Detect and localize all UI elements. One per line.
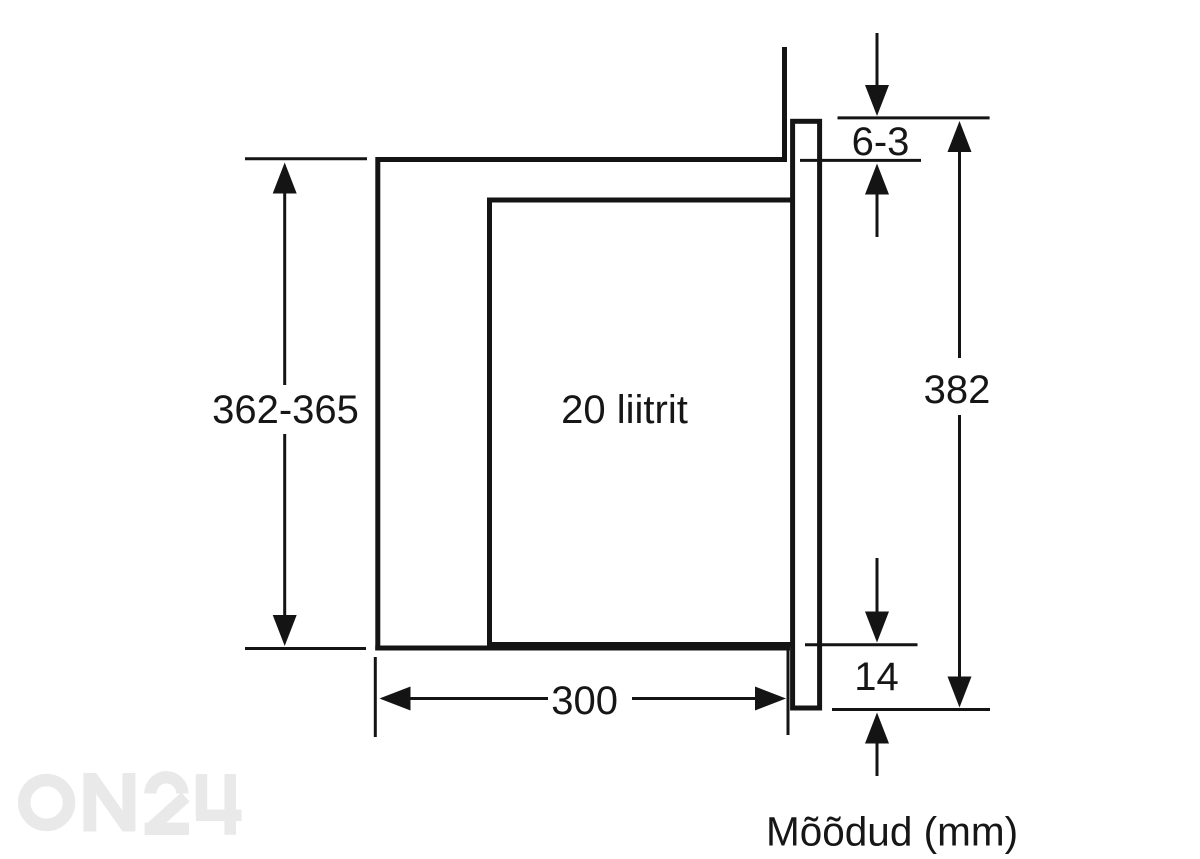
- dimension 6-3 lower shaft: [876, 194, 879, 237]
- cabinet top edge: [376, 157, 788, 162]
- dimension 300 left shaft: [410, 697, 548, 700]
- svg-text:6-3: 6-3: [852, 120, 910, 164]
- dimension 14 upper shaft: [876, 558, 879, 613]
- dimension 362-365 up arrowhead: [273, 163, 297, 194]
- dimension 300 left extension line: [374, 657, 377, 737]
- svg-text:382: 382: [924, 368, 991, 412]
- dimension 382 upper shaft: [958, 151, 961, 358]
- dimension 300 right extension line: [787, 647, 790, 735]
- dimension 382 / 14 bottom extension line: [832, 708, 990, 711]
- dimension 14 down arrowhead: [865, 612, 889, 643]
- dimension 362-365 upper shaft: [283, 192, 286, 385]
- dimension 300 right arrowhead: [755, 687, 786, 711]
- dimension 300 left arrowhead: [380, 687, 411, 711]
- dimension 14 top extension line: [805, 643, 918, 646]
- dimension 6-3 up arrowhead: [865, 164, 889, 195]
- watermark ON24 letter N: [83, 773, 135, 832]
- dimension 14 lower shaft: [876, 743, 879, 776]
- watermark ON24 letter O: [24, 780, 69, 825]
- cabinet bottom edge: [375, 646, 790, 651]
- watermark ON24 digit 2: [150, 777, 182, 793]
- dimension 6-3 down arrowhead: [865, 85, 889, 116]
- dimension 300 right shaft: [632, 697, 756, 700]
- dimension 362-365 bottom extension line: [245, 647, 366, 650]
- svg-text:362-365: 362-365: [212, 388, 359, 432]
- dimension 382 down arrowhead: [948, 677, 972, 708]
- dimension 6-3 upper shaft: [876, 33, 879, 87]
- wall line above niche: [782, 47, 787, 162]
- cavity bottom edge: [487, 642, 793, 647]
- svg-text:300: 300: [551, 679, 618, 723]
- dimension 382 up arrowhead: [948, 121, 972, 152]
- svg-text:14: 14: [854, 655, 899, 699]
- dimension 382 lower shaft: [958, 415, 961, 678]
- dimension 362-365 top extension line: [245, 157, 367, 160]
- dimension 362-365 down arrowhead: [273, 615, 297, 646]
- dimension 6-3 bottom extension line: [800, 159, 921, 162]
- dimension 14 up arrowhead: [865, 713, 889, 744]
- cabinet left edge: [375, 157, 380, 651]
- svg-text:20 liitrit: 20 liitrit: [561, 388, 688, 432]
- dimension 6-3 / 382 top extension line: [838, 116, 990, 119]
- watermark ON24 digit 4: [196, 774, 242, 835]
- dimension 362-365 lower shaft: [283, 434, 286, 617]
- appliance front panel: [793, 121, 820, 708]
- cavity outline (20 liitrit box) left and top: [490, 200, 794, 647]
- svg-text:Mõõdud (mm): Mõõdud (mm): [766, 809, 1018, 855]
